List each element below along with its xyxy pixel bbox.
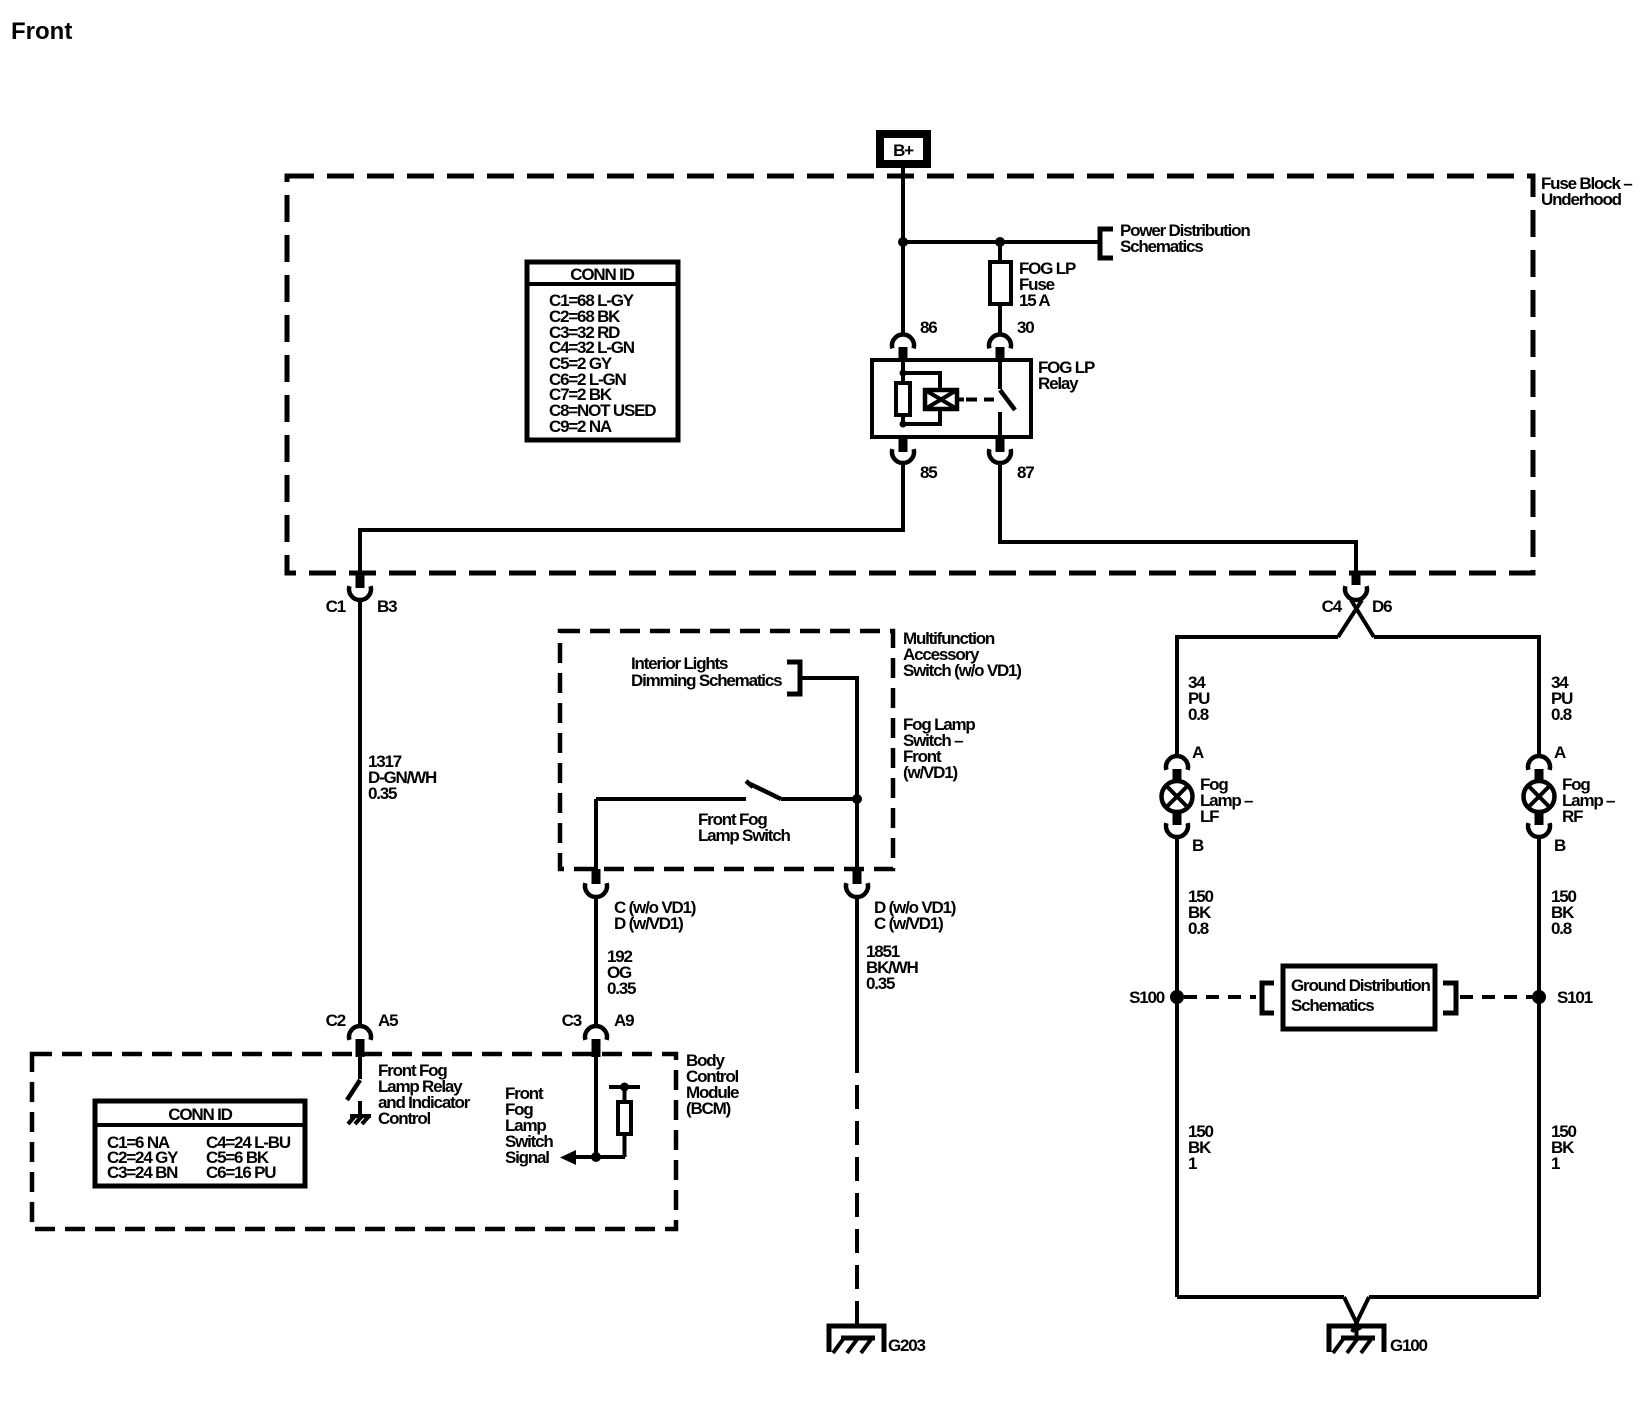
ground G100 — [1329, 1326, 1428, 1355]
wire lamp LF down — [1175, 836, 1179, 1297]
wire label 150 BK 1 right — [1551, 1122, 1577, 1173]
svg-text:1: 1 — [1551, 1154, 1560, 1173]
wire pin85 to C1 — [360, 463, 903, 573]
wire to C3 — [594, 896, 598, 1028]
ground G203 — [829, 1326, 926, 1355]
svg-text:Schematics: Schematics — [1120, 237, 1203, 256]
svg-text:1: 1 — [1188, 1154, 1197, 1173]
wire label 150 BK 0.8 right — [1551, 887, 1577, 938]
CONN ID table fuse block — [527, 262, 678, 440]
connector C4 D6 — [1322, 575, 1392, 616]
svg-text:A: A — [1192, 743, 1204, 762]
svg-text:C1: C1 — [326, 597, 346, 616]
relay switch contact — [1000, 360, 1015, 437]
wire merge V left — [1344, 1297, 1360, 1330]
svg-text:Switch (w/o VD1): Switch (w/o VD1) — [903, 661, 1021, 680]
front fog lamp relay control switch — [347, 1057, 360, 1116]
svg-text:0.35: 0.35 — [368, 784, 397, 803]
resistor relay coil suppression — [896, 383, 910, 415]
svg-text:CONN ID: CONN ID — [570, 265, 634, 284]
svg-text:G100: G100 — [1390, 1336, 1428, 1355]
resistor BCM pull-up — [609, 1083, 640, 1158]
BCM dashed box — [32, 1054, 676, 1229]
pin 86 connector — [892, 318, 937, 361]
svg-text:C3=24 BN: C3=24 BN — [107, 1163, 178, 1182]
svg-text:0.35: 0.35 — [607, 979, 636, 998]
junction — [898, 237, 908, 247]
wire stub to ground — [1355, 1318, 1359, 1338]
junction — [591, 1152, 601, 1162]
ground distribution schematics box — [1283, 966, 1435, 1029]
wire label 1317 D-GN/WH 0.35 — [368, 752, 437, 803]
junction — [852, 794, 862, 804]
svg-text:Dimming Schematics: Dimming Schematics — [631, 671, 782, 690]
relay coil — [925, 390, 964, 409]
connector C2 A5 — [326, 1011, 398, 1057]
svg-text:87: 87 — [1017, 463, 1034, 482]
label Body Control Module — [686, 1051, 739, 1118]
svg-text:85: 85 — [920, 463, 937, 482]
wire label 150 BK 1 left — [1188, 1122, 1214, 1173]
svg-text:C (w/VD1): C (w/VD1) — [874, 914, 943, 933]
svg-text:Ground Distribution: Ground Distribution — [1291, 976, 1430, 995]
wire bracket to switch — [800, 678, 857, 799]
svg-text:(BCM): (BCM) — [686, 1099, 731, 1118]
svg-text:30: 30 — [1017, 318, 1034, 337]
wire bottom left run — [1177, 1295, 1344, 1299]
svg-text:0.8: 0.8 — [1551, 705, 1572, 724]
svg-text:15 A: 15 A — [1019, 291, 1050, 310]
pin 85 connector — [892, 437, 937, 482]
wire splice X right — [1351, 600, 1374, 637]
svg-text:Front: Front — [11, 18, 72, 45]
dashed wire bracket to S101 — [1460, 995, 1532, 999]
connector C3 A9 — [562, 1011, 634, 1057]
wire coil branch top — [903, 373, 940, 390]
arrow front fog lamp switch signal — [560, 1150, 576, 1165]
svg-text:C6=16 PU: C6=16 PU — [206, 1163, 276, 1182]
svg-text:A5: A5 — [378, 1011, 398, 1030]
ground distribution bracket right — [1443, 983, 1456, 1013]
fuse block underhood dashed box — [287, 176, 1533, 573]
svg-text:C4: C4 — [1322, 597, 1343, 616]
svg-text:S100: S100 — [1129, 988, 1165, 1007]
wire label 1851 BK/WH 0.35 — [866, 942, 919, 993]
fog lamp RF — [1524, 743, 1616, 855]
interior lights dimming schematics bracket — [631, 654, 800, 694]
fog lamp LF — [1162, 743, 1254, 855]
svg-text:D (w/VD1): D (w/VD1) — [614, 914, 683, 933]
ground internal — [348, 1116, 371, 1124]
fuse FOG LP 15 A — [990, 259, 1076, 310]
label Multifunction Accessory Switch — [903, 629, 1021, 680]
svg-text:LF: LF — [1200, 807, 1219, 826]
wire C1 down to C2 — [358, 599, 362, 1028]
wire splice X left — [1338, 600, 1362, 637]
svg-text:C9=2 NA: C9=2 NA — [549, 417, 612, 436]
splice S100 — [1129, 988, 1184, 1007]
svg-text:D6: D6 — [1372, 597, 1392, 616]
svg-text:C2: C2 — [326, 1011, 346, 1030]
CONN ID table BCM — [95, 1101, 305, 1186]
svg-text:Underhood: Underhood — [1541, 190, 1622, 209]
wire 1851 solid part — [855, 896, 859, 1049]
connector D pin fog switch right — [846, 869, 956, 933]
svg-text:A: A — [1554, 743, 1566, 762]
svg-text:Relay: Relay — [1038, 374, 1079, 393]
pin 87 connector — [989, 437, 1034, 482]
front fog lamp switch contact — [596, 781, 857, 845]
svg-text:B: B — [1554, 836, 1566, 855]
junction — [900, 421, 907, 428]
wire fuse feed — [998, 242, 1002, 336]
wire label 34 PU 0.8 left — [1188, 673, 1210, 724]
svg-text:B3: B3 — [377, 597, 397, 616]
svg-text:0.8: 0.8 — [1188, 919, 1209, 938]
svg-text:RF: RF — [1562, 807, 1583, 826]
splice S101 — [1532, 988, 1593, 1007]
wire switch left leg — [594, 799, 598, 869]
power distribution schematics bracket — [1100, 221, 1250, 258]
wire lamp RF down — [1537, 836, 1541, 1297]
wire C3 into BCM — [594, 1057, 598, 1157]
svg-text:C3: C3 — [562, 1011, 582, 1030]
junction — [995, 237, 1005, 247]
wire pin87 to C4 — [1000, 463, 1356, 574]
svg-text:0.35: 0.35 — [866, 974, 895, 993]
wire merge V right — [1352, 1297, 1369, 1332]
dashed actuator link — [966, 398, 994, 402]
svg-text:0.8: 0.8 — [1188, 705, 1209, 724]
relay U1 FOG LP Relay — [872, 358, 1095, 437]
wire to right fog lamp — [1374, 637, 1539, 756]
label Fog Lamp Switch Front — [903, 715, 975, 782]
wire label 150 BK 0.8 left — [1188, 887, 1214, 938]
svg-text:Schematics: Schematics — [1291, 996, 1374, 1015]
wire B+ down to pin 86 — [901, 168, 905, 336]
wire resistor bottom — [901, 415, 905, 424]
svg-text:86: 86 — [920, 318, 937, 337]
wire to arrow — [570, 1155, 625, 1159]
wire switch right leg — [855, 799, 859, 869]
label Fuse Block Underhood — [1541, 174, 1632, 209]
svg-text:S101: S101 — [1557, 988, 1593, 1007]
svg-text:G203: G203 — [888, 1336, 926, 1355]
fog lamp switch dashed box — [560, 631, 893, 869]
svg-text:0.8: 0.8 — [1551, 919, 1572, 938]
wire to power distribution — [903, 240, 1098, 244]
connector C pin fog switch left — [585, 869, 696, 933]
connector C1 B3 — [326, 574, 397, 616]
node B+ — [880, 134, 927, 164]
svg-text:CONN ID: CONN ID — [168, 1105, 232, 1124]
wire bottom right run — [1369, 1295, 1539, 1299]
svg-text:Lamp Switch: Lamp Switch — [698, 826, 790, 845]
wire label 192 OG 0.35 — [607, 947, 636, 998]
wire coil branch bottom — [903, 409, 940, 424]
svg-text:B: B — [1192, 836, 1204, 855]
dashed wire S100 to bracket — [1184, 995, 1256, 999]
ground distribution bracket left — [1262, 983, 1274, 1013]
svg-text:B+: B+ — [893, 141, 914, 160]
svg-text:(w/VD1): (w/VD1) — [903, 763, 957, 782]
wire pin86 into relay — [901, 360, 905, 383]
svg-text:Control: Control — [378, 1109, 431, 1128]
wire 1851 dashed part to G203 — [855, 1049, 859, 1337]
junction — [900, 370, 907, 377]
svg-text:Signal: Signal — [505, 1148, 549, 1167]
label Front Fog Lamp Relay and Indicator Control — [378, 1061, 471, 1128]
svg-text:A9: A9 — [614, 1011, 634, 1030]
pin 30 connector — [989, 318, 1034, 361]
wire label 34 PU 0.8 right — [1551, 673, 1573, 724]
label Front Fog Lamp Switch Signal — [505, 1084, 553, 1167]
wire to left fog lamp — [1177, 637, 1338, 756]
